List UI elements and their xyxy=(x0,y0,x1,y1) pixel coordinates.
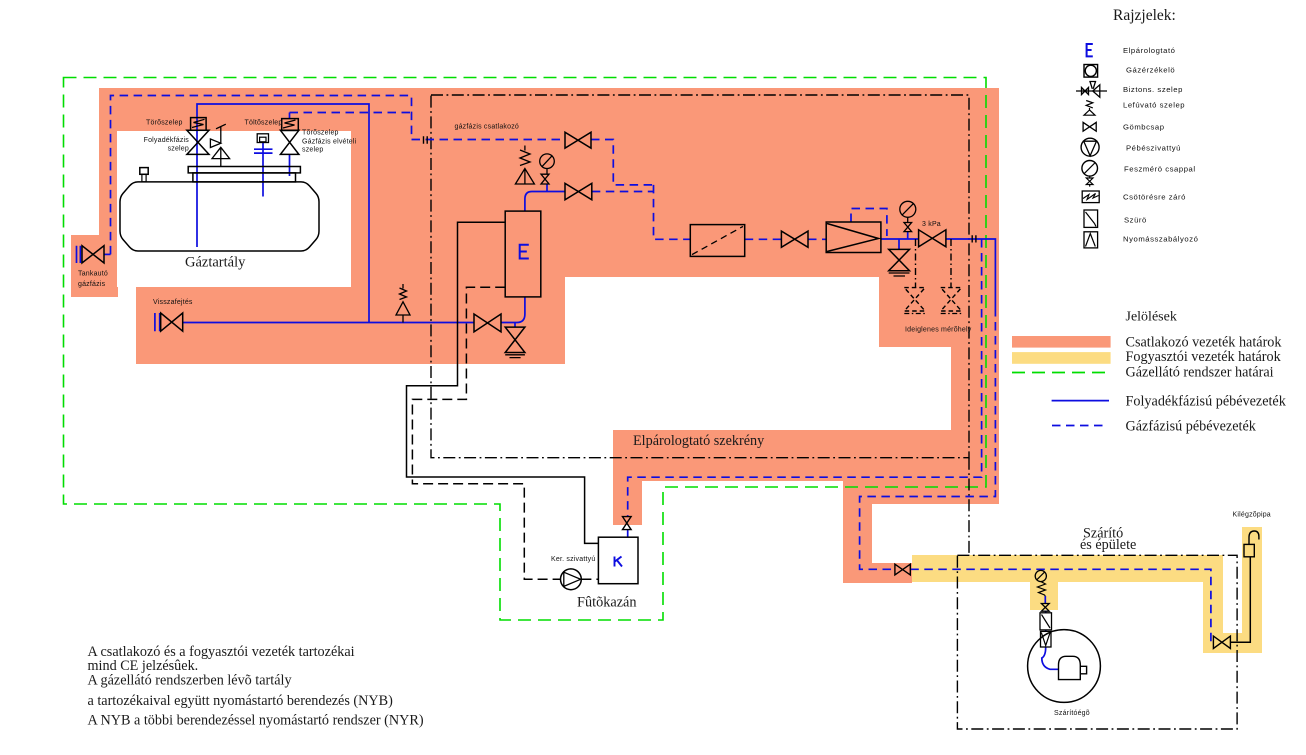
svg-text:Törõszelep: Törõszelep xyxy=(146,120,183,127)
salmon zone: E-section mid strip xyxy=(351,277,565,364)
liquid pipe: valve to E bottom elbow xyxy=(501,297,525,323)
gas-supply system boundary (green dashed loop) xyxy=(64,78,987,621)
pressure regulator xyxy=(826,222,881,253)
K letter in boiler xyxy=(615,557,623,567)
white cutout: gas tank area xyxy=(117,131,351,287)
dryer pressure regulator xyxy=(1041,631,1052,647)
mid ball valve xyxy=(781,231,808,247)
legend icon: pressure regulator xyxy=(1084,232,1098,248)
pipe break shutoff (filter box w dashed diagonal) xyxy=(690,225,744,257)
gauge with tap at E outlet xyxy=(540,154,555,169)
burner body xyxy=(1059,656,1087,679)
gas-phase pipe: manifold to cabinet valve 1 xyxy=(412,139,566,141)
svg-text:Elpárologtató: Elpárologtató xyxy=(1123,46,1175,55)
break valve R coil box xyxy=(282,119,299,131)
legend swatch: blue solid xyxy=(1052,400,1109,402)
regulated gas main (solid) regulator to big valve xyxy=(881,238,919,240)
salmon zone: Tankauto wing xyxy=(71,235,118,297)
legend icon: filter xyxy=(1084,210,1098,227)
temporary metering valve 1 (dashed hourglass) xyxy=(904,288,925,311)
svg-text:Csötörésre záró: Csötörésre záró xyxy=(1123,193,1186,202)
gas-phase pipe: main drop to dryer xyxy=(860,308,996,569)
gas stem below right break valve xyxy=(289,154,291,176)
cabinet gas ball valve 2 xyxy=(565,183,592,199)
tankauto valve tail xyxy=(104,253,111,255)
liquid pipe: E drain stub xyxy=(514,323,516,328)
burner feed through regulator train xyxy=(1044,596,1046,631)
svg-text:Tõrõszelep: Tõrõszelep xyxy=(302,129,339,136)
legend labels column xyxy=(1123,46,1198,244)
drain stub after regulator xyxy=(898,239,900,249)
svg-text:Szürö: Szürö xyxy=(1124,216,1147,225)
bottom-left note block xyxy=(88,644,424,729)
E letter in evaporator xyxy=(520,245,529,259)
ball valve before E xyxy=(474,314,501,332)
evaporator vessel E xyxy=(505,211,541,297)
temporary metering riser 2 (dash-dot) xyxy=(950,239,952,288)
filling coupling bar 1 xyxy=(254,148,273,150)
legend swatch: salmon bar xyxy=(1012,336,1111,348)
svg-text:A NYB a többi berendezéssel ny: A NYB a többi berendezéssel nyomástartó … xyxy=(88,713,424,729)
tank platform upper bar xyxy=(188,167,300,173)
salmon zone: right shoulder xyxy=(879,277,999,347)
main shutoff ball valve 3kPa xyxy=(919,230,946,247)
svg-text:A gázellátó rendszerben lévõ t: A gázellátó rendszerben lévõ tartály xyxy=(88,673,293,689)
svg-text:szelep: szelep xyxy=(302,146,323,153)
gas-phase pipe: drop to filter row xyxy=(654,185,691,239)
visszafejtes ball valve xyxy=(161,313,183,331)
pipe joint tick at cabinet inlet xyxy=(424,136,428,143)
svg-text:Ideiglenes mérõhely: Ideiglenes mérõhely xyxy=(905,327,972,334)
salmon zone: dryer feed column xyxy=(843,480,872,583)
dryer filter xyxy=(1040,613,1052,630)
yellow zone: chimney column xyxy=(1242,527,1262,653)
tankauto ball valve xyxy=(82,246,104,263)
consumer-pipe zone (yellow) band to dryer xyxy=(912,527,1262,653)
chimney head box xyxy=(1244,544,1254,556)
filling coupling bar 2 xyxy=(254,152,273,154)
yellow zone: bottom band xyxy=(1203,633,1262,653)
liquid pipe: tank liquid riser and top run xyxy=(197,104,369,323)
burner feed curve into burner xyxy=(1042,647,1059,669)
gas-phase pipe: valve1 jog to drop xyxy=(591,140,654,185)
svg-text:a tartozékaival együtt nyomást: a tartozékaival együtt nyomástartó beren… xyxy=(88,693,394,709)
gas-phase pipe: tankauto riser to top manifold xyxy=(111,96,412,255)
gas-phase pipe: branch down to boiler xyxy=(628,239,982,517)
dryer building boundary (black dash-dot) xyxy=(957,555,1237,729)
dryer inlet ball valve xyxy=(895,564,910,575)
legend icon: gauge with tap xyxy=(1082,161,1098,177)
dryer burner circle xyxy=(1028,630,1101,703)
legend swatch: green dashed xyxy=(1012,372,1108,374)
liquid pipe: Visszafejtes horizontal run xyxy=(183,322,474,324)
svg-text:Ker. szivattyú: Ker. szivattyú xyxy=(551,556,595,563)
liquid pipe: filling line into tank xyxy=(262,142,264,197)
cabinet-to-building dash-dot connector xyxy=(968,458,970,556)
E bottom drain hourglass xyxy=(505,327,525,352)
valve above boiler xyxy=(623,517,632,530)
dryer small valve xyxy=(1041,604,1049,612)
salmon zone: dryer valve band xyxy=(843,563,912,583)
gas-phase pipe: E outlet valve2 to drop xyxy=(592,191,654,193)
blowoff valve on visszafejtes line xyxy=(396,284,410,323)
gas extraction valve (hourglass) xyxy=(280,130,299,154)
legend icon: ball valve xyxy=(1083,122,1096,131)
pipe joint tick at boundary xyxy=(972,235,976,242)
chimney pipe black run xyxy=(1230,557,1250,643)
gas tank body xyxy=(120,182,319,251)
chimney exit valve xyxy=(1213,636,1230,648)
svg-text:Gáztartály: Gáztartály xyxy=(185,255,246,271)
gas-phase pipe: ball valve to regulator xyxy=(808,238,826,240)
drain hourglass after regulator xyxy=(889,249,910,270)
gauge stem at regulator outlet xyxy=(907,232,909,239)
salmon zone: boiler feed column xyxy=(613,480,642,525)
chimney hook xyxy=(1249,531,1259,544)
gas pipe: E top elbow to valve row xyxy=(525,192,565,212)
regulated gas main (solid) big valve to turn xyxy=(946,239,996,308)
legend icon: pipe-break shutoff xyxy=(1082,191,1099,203)
svg-text:Tankautó: Tankautó xyxy=(78,270,108,277)
salmon zone: szekreny band right xyxy=(872,430,999,504)
temporary metering riser 1 (dash-dot) xyxy=(915,239,917,288)
blowoff valve above E xyxy=(515,146,534,185)
svg-text:szelep: szelep xyxy=(168,145,189,152)
svg-text:3 kPa: 3 kPa xyxy=(922,221,941,228)
svg-text:Lefúvató szelep: Lefúvató szelep xyxy=(1123,101,1185,110)
filling valve square xyxy=(257,134,268,143)
break valve L coil box xyxy=(191,118,207,131)
svg-text:Pébészivattyú: Pébészivattyú xyxy=(1126,144,1181,153)
gas stem above right break valve xyxy=(289,113,291,119)
svg-text:Visszafejtés: Visszafejtés xyxy=(153,299,193,306)
yellow zone: burner stub xyxy=(1030,582,1058,610)
svg-text:Gázellátó rendszer határai: Gázellátó rendszer határai xyxy=(1126,365,1274,381)
regulator sensing line xyxy=(851,209,887,237)
svg-text:Folyadékfázis: Folyadékfázis xyxy=(144,137,190,144)
legend icon: safety valve xyxy=(1076,82,1107,98)
legend icon: gas detector xyxy=(1084,65,1098,78)
gauge with tap after regulator xyxy=(900,201,916,217)
gas-phase pipe: filter to ball valve xyxy=(745,238,782,240)
legend swatch: blue dashed xyxy=(1052,425,1108,427)
svg-text:Nyomásszabályozó: Nyomásszabályozó xyxy=(1123,235,1198,244)
svg-text:Gázérzékelö: Gázérzékelö xyxy=(1126,66,1175,75)
svg-text:Feszmérö csappal: Feszmérö csappal xyxy=(1124,165,1196,174)
svg-text:Rajzjelek:: Rajzjelek: xyxy=(1113,7,1176,24)
gauge stem at E xyxy=(546,184,548,192)
salmon zone: Visszafejtes band xyxy=(136,287,351,364)
tank platform lower bar xyxy=(193,173,296,182)
legend icon: LPG pump xyxy=(1081,138,1099,156)
svg-text:gázfázis: gázfázis xyxy=(78,281,106,288)
visszafejtes coupling ticks xyxy=(155,313,160,331)
legend swatch: yellow bar xyxy=(1012,352,1111,364)
svg-text:Kilégzõpipa: Kilégzõpipa xyxy=(1233,512,1271,519)
boiler K box xyxy=(598,537,638,584)
svg-text:Töltõszelep: Töltõszelep xyxy=(245,120,283,127)
svg-text:Gázfázisú pébévezeték: Gázfázisú pébévezeték xyxy=(1126,419,1257,435)
tank nozzle stem xyxy=(142,174,146,182)
tank safety valve xyxy=(210,124,229,166)
svg-text:Fûtõkazán: Fûtõkazán xyxy=(577,595,637,611)
connection-pipe zone (salmon) main block xyxy=(71,88,999,583)
svg-text:gázfázis csatlakozó: gázfázis csatlakozó xyxy=(455,124,520,131)
yellow zone: descend column xyxy=(1203,555,1223,633)
tank nozzle xyxy=(140,168,148,175)
liquid phase valve (hourglass) xyxy=(187,130,209,154)
svg-text:Folyadékfázisú pébévezeték: Folyadékfázisú pébévezeték xyxy=(1126,394,1287,410)
gas-phase pipe: dryer band run xyxy=(910,569,1213,642)
svg-text:Gázfázis elvételi: Gázfázis elvételi xyxy=(302,138,357,145)
tankauto coupling ticks xyxy=(77,246,81,263)
svg-text:Elpárologtató szekrény: Elpárologtató szekrény xyxy=(633,433,765,449)
legend icon: evaporator E (blue) xyxy=(1087,44,1093,56)
small labels xyxy=(78,120,1271,718)
gas-phase pipe: tank gas valve run to manifold xyxy=(290,112,412,114)
legend icon: blow-off valve xyxy=(1084,101,1095,116)
boiler gas feed into K xyxy=(627,530,629,538)
evaporator cabinet boundary (black dash-dot) xyxy=(431,95,969,458)
heating water return (black dashed) K to E xyxy=(412,287,598,579)
svg-text:Fogyasztói vezeték határok: Fogyasztói vezeték határok xyxy=(1126,349,1282,365)
salmon zone: szekreny band left xyxy=(613,430,873,481)
heating water supply (black solid) E to K xyxy=(407,222,599,543)
svg-text:Gömbcsap: Gömbcsap xyxy=(1123,123,1165,132)
temporary metering valve 2 (dashed hourglass) xyxy=(941,288,962,311)
salmon zone: right column xyxy=(951,347,999,431)
svg-text:és épülete: és épülete xyxy=(1080,537,1136,553)
svg-text:Szárítóégõ: Szárítóégõ xyxy=(1054,710,1090,717)
cabinet gas ball valve 1 xyxy=(565,132,591,148)
circulation pump xyxy=(561,569,582,590)
dryer gauge with tap xyxy=(1035,570,1046,581)
svg-text:Biztons. szelep: Biztons. szelep xyxy=(1123,85,1183,94)
svg-text:Jelölések: Jelölések xyxy=(1126,310,1177,325)
